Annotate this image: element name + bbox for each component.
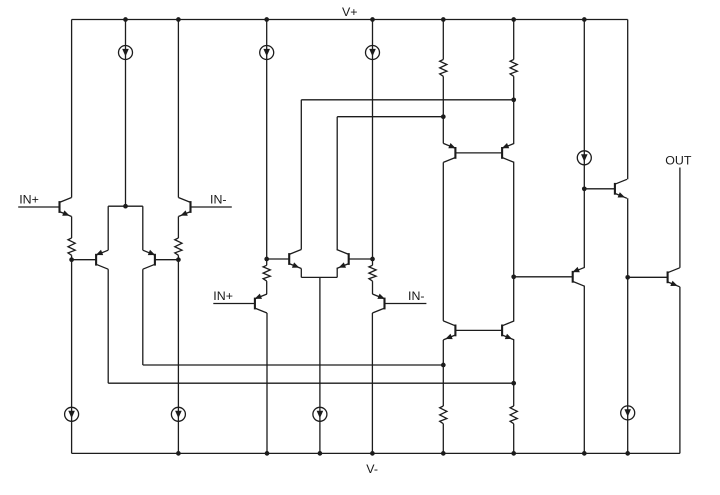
transistor Q3 (mirror left, PNP) xyxy=(96,250,108,269)
wire Q7 collector to bottom rail xyxy=(266,313,268,453)
node C (junction dot) xyxy=(176,257,181,262)
wire Q2 emitter to R2 xyxy=(177,217,179,239)
current source I6 xyxy=(171,407,185,421)
transistor Q11 (cascode lower left, NPN) xyxy=(443,321,455,340)
wire box left side to Q3 emitter xyxy=(107,206,109,250)
resistor R5 xyxy=(440,60,447,77)
transistor Q13 (driver, PNP) xyxy=(572,267,584,286)
wire R1 to node A xyxy=(71,255,73,259)
wire node D to R3 xyxy=(266,259,268,265)
wire Q9 collector down to Q11 collector xyxy=(442,162,444,321)
wire IN+ second input lead xyxy=(213,303,255,305)
node H3 (junction dot, Q13 base tap) xyxy=(511,274,516,279)
current source I1 xyxy=(119,46,133,60)
wire Q4 collector down xyxy=(142,269,144,365)
wire cross-couple upper B to node G1 xyxy=(337,116,443,118)
transistor Q7 (IN+ second stage, PNP) xyxy=(255,294,267,313)
junction dot bottom rail at column J xyxy=(625,451,630,456)
junction dot on V+ rail at I1 xyxy=(123,17,128,22)
node H1 (junction dot) xyxy=(511,97,516,102)
svg-text:V+: V+ xyxy=(342,5,358,19)
node H2 (junction dot) xyxy=(511,381,516,386)
wire IN- second input lead xyxy=(385,303,427,305)
resistor R8 xyxy=(510,406,517,424)
current source I5 xyxy=(65,407,79,421)
wire tail bus xyxy=(301,276,337,278)
junction dot on V+ rail at I3 xyxy=(370,17,375,22)
wire Q15 emitter to bottom rail end xyxy=(679,287,681,454)
wire V+ to R5 xyxy=(442,20,444,60)
transistor Q5 (second stage left, NPN) xyxy=(289,250,301,269)
junction dot bottom rail at column F xyxy=(370,451,375,456)
wire R5 down to Q9 emitter xyxy=(442,76,444,143)
svg-text:OUT: OUT xyxy=(665,154,692,168)
resistor R3 xyxy=(263,265,270,281)
transistor Q6 (second stage right, NPN) xyxy=(337,250,349,269)
resistor R2 xyxy=(175,238,182,255)
wire Q3 collector down xyxy=(107,269,109,383)
wire node F to R4 xyxy=(372,259,374,265)
wire I2 column V+ to node D xyxy=(266,20,268,260)
svg-text:IN+: IN+ xyxy=(213,289,233,303)
transistor Q1 (IN+ input, NPN) xyxy=(60,198,72,217)
transistor Q8 (IN- second stage, PNP) xyxy=(372,294,384,313)
current source I2 xyxy=(260,46,274,60)
transistor Q15 (output, NPN) xyxy=(668,268,680,287)
junction dot on V+ rail at I2 xyxy=(264,17,269,22)
wire bottom rail V- xyxy=(72,452,680,454)
wire tail down to I7 xyxy=(319,277,321,453)
resistor R4 xyxy=(369,265,376,281)
wire I4 column V+ down to Q13 emitter xyxy=(583,20,585,268)
wire Q4 collector cross to node G2 xyxy=(143,364,444,366)
junction dot bottom rail at column I xyxy=(582,451,587,456)
junction dot bottom rail at column E xyxy=(318,451,323,456)
wire Q1 emitter to R1 xyxy=(71,217,73,239)
wire node J to Q15 base xyxy=(628,276,668,278)
node J (junction dot, Q15 base tap) xyxy=(625,275,630,280)
junction dot on V+ rail at I4 xyxy=(582,17,587,22)
wire Q11-Q12 base tie xyxy=(455,329,502,331)
wire Q13 collector to bottom rail xyxy=(583,286,585,453)
junction dot bottom rail at column G xyxy=(441,451,446,456)
wire V+ to R6 xyxy=(513,20,515,60)
wire Q6 base to node F xyxy=(349,258,373,260)
current source I4 xyxy=(577,151,591,165)
transistor Q14 (driver, NPN) xyxy=(615,179,627,198)
wire R2 to node C xyxy=(177,255,179,259)
wire Q4 base to node C xyxy=(155,259,179,261)
resistor R1 xyxy=(68,238,75,255)
wire box horizontal xyxy=(108,205,143,207)
wire node A down to I5 xyxy=(71,260,73,454)
wire Q8 collector to bottom rail xyxy=(371,313,373,453)
wire Q14 emitter down to I8 xyxy=(627,198,629,453)
wire Q3 collector cross to node H2 xyxy=(108,382,514,384)
junction dot on V+ rail at R5 xyxy=(441,17,446,22)
wire Q6 emitter to tail bus xyxy=(336,269,338,278)
node G1 (junction dot) xyxy=(441,114,446,119)
transistor Q2 (IN- input, NPN) xyxy=(178,198,190,217)
wire box right side to Q4 emitter xyxy=(142,206,144,250)
resistor R6 xyxy=(510,60,517,77)
wire Q14 collector to V+ rail end xyxy=(627,20,629,180)
wire R8 to bottom rail xyxy=(513,424,515,454)
current source I3 xyxy=(366,46,380,60)
node B (box center dot) xyxy=(123,204,128,209)
resistor R7 xyxy=(440,406,447,424)
transistor Q10 (cascode upper right, PNP) xyxy=(502,143,514,162)
wire Q5 emitter to tail bus xyxy=(300,269,302,278)
transistor Q12 (cascode lower right, NPN) xyxy=(502,321,514,340)
node A (junction dot) xyxy=(69,257,74,262)
svg-text:IN-: IN- xyxy=(210,193,227,207)
wire top rail V+ xyxy=(72,19,628,21)
wire node I to Q14 base xyxy=(584,188,615,190)
junction dot bottom rail at column H xyxy=(511,451,516,456)
current source I7 xyxy=(313,407,327,421)
wire Q5 base to node D xyxy=(267,258,290,260)
node F (junction dot) xyxy=(370,257,375,262)
junction dot on V+ rail at R6 xyxy=(511,17,516,22)
wire I1 column V+ to box node xyxy=(125,20,127,207)
wire Q2 collector to V+ rail xyxy=(177,20,179,198)
wire IN+ input lead xyxy=(18,206,59,208)
wire I3 column V+ to node F xyxy=(372,20,374,260)
wire Q11 emitter down to R7 xyxy=(442,340,444,406)
node G2 (junction dot) xyxy=(441,363,446,368)
wire cross-couple upper A to node H1 xyxy=(301,99,513,101)
node I (junction dot, Q14 base tap) xyxy=(582,186,587,191)
wire Q5 collector up xyxy=(300,100,302,250)
current source I8 xyxy=(621,406,635,420)
wire R6 down to Q10 emitter xyxy=(513,76,515,143)
svg-text:V-: V- xyxy=(366,462,378,476)
junction dot bottom rail at column D xyxy=(265,451,270,456)
svg-text:IN+: IN+ xyxy=(19,193,39,207)
node D (junction dot) xyxy=(264,257,269,262)
wire Q10 collector down to Q12 collector xyxy=(513,162,515,321)
wire node A to Q3 base xyxy=(72,259,97,261)
wire R4 to Q8 emitter xyxy=(372,281,374,294)
wire Q12 emitter down to R8 xyxy=(513,340,515,406)
wire OUT stub to Q15 collector xyxy=(679,168,681,268)
wire node C down to I6 xyxy=(177,260,179,454)
transistor Q9 (cascode upper left, PNP) xyxy=(443,143,455,162)
wire Q13 base to node H3 xyxy=(514,276,573,278)
wire Q9-Q10 base tie xyxy=(455,152,502,154)
wire Q6 collector up xyxy=(336,117,338,250)
junction dot on V+ rail at column C xyxy=(176,17,181,22)
wire IN- input lead xyxy=(191,206,232,208)
svg-text:IN-: IN- xyxy=(408,289,425,303)
wire Q1 collector to V+ rail xyxy=(71,20,73,198)
wire R7 to bottom rail xyxy=(442,424,444,454)
wire R3 to Q7 emitter xyxy=(266,281,268,294)
junction dot bottom rail at column C xyxy=(176,451,181,456)
transistor Q4 (mirror right, PNP) xyxy=(143,250,155,269)
